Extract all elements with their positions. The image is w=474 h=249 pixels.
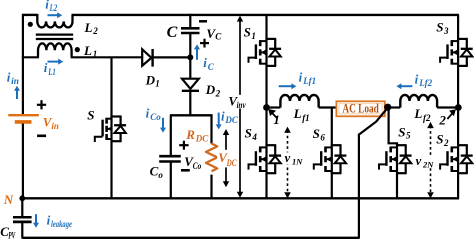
diode D2: [182, 79, 199, 91]
svg-text:v: v: [416, 154, 422, 168]
wire S3 source to node 2: [457, 66, 459, 108]
svg-text:in: in: [11, 76, 19, 86]
label iL2: [45, 0, 57, 13]
wire S drain: [110, 57, 112, 117]
label L2: [84, 20, 99, 36]
wire ground return bottom: [22, 237, 359, 239]
svg-text:v: v: [285, 151, 291, 165]
svg-text:S: S: [398, 124, 405, 139]
label Vinv: [228, 93, 247, 110]
inductor Lf2: [400, 95, 437, 108]
svg-text:i: i: [47, 212, 51, 227]
label iL1: [44, 60, 56, 77]
svg-text:S: S: [245, 126, 252, 141]
wire S2 drain: [457, 108, 459, 146]
svg-text:f2: f2: [423, 113, 431, 123]
inductor L1 winding (coupled): [38, 43, 72, 57]
label + (Co): [179, 141, 188, 150]
svg-text:C: C: [208, 62, 215, 72]
svg-text:2: 2: [215, 89, 221, 99]
voltage arrow VDC: [223, 129, 229, 187]
svg-text:DC: DC: [226, 158, 238, 168]
svg-text:6: 6: [320, 132, 325, 142]
svg-text:1: 1: [251, 31, 256, 41]
wire S1 source to node 1: [265, 66, 267, 108]
svg-text:Lf1: Lf1: [302, 76, 316, 86]
label AC Load: [342, 102, 379, 116]
label VC: [206, 26, 222, 42]
wire D2 to DC loop: [189, 91, 191, 117]
wire C bottom to node A: [189, 33, 191, 57]
transistor S (mosfet): [95, 117, 126, 142]
wire AC load to Lf2: [388, 106, 401, 108]
wire left vertical (battery + to coupled inductor): [22, 14, 24, 115]
current arrow ileakage: [33, 214, 39, 228]
label CPV: [0, 224, 16, 241]
svg-text:AC Load: AC Load: [342, 102, 379, 116]
wire L1 left stub: [22, 56, 39, 58]
svg-text:L: L: [413, 106, 422, 121]
load AC Load box: [336, 101, 384, 116]
voltage arrow Vinv: [237, 16, 243, 198]
current arrow iL2: [48, 12, 63, 18]
label v1N: [284, 151, 303, 166]
wire node A to D2: [189, 57, 191, 78]
wire S4 drain: [265, 108, 267, 146]
label Lf1: [293, 106, 310, 123]
voltage arrow v1N: [284, 127, 291, 199]
svg-text:i: i: [146, 106, 150, 121]
label S2: [436, 132, 449, 148]
transistor S2 (mosfet): [440, 145, 473, 173]
current arrow iL1: [48, 59, 64, 65]
label Co: [150, 164, 164, 181]
svg-text:in: in: [51, 121, 59, 131]
svg-text:i: i: [203, 55, 207, 70]
transistor S5 (mosfet): [379, 145, 412, 173]
wire Co branch upper: [170, 115, 172, 156]
label RDC: [185, 127, 209, 144]
wire node 1 to Lf1: [267, 106, 281, 108]
wire Co branch lower: [170, 162, 172, 200]
svg-text:leakage: leakage: [51, 219, 72, 229]
svg-text:Co: Co: [150, 112, 161, 122]
svg-text:D: D: [205, 82, 216, 97]
svg-text:i: i: [221, 109, 225, 124]
current arrow iin: [14, 86, 20, 99]
svg-text:S: S: [436, 132, 443, 147]
label S6: [313, 126, 326, 142]
node N junction dot: [19, 195, 25, 201]
svg-text:i: i: [45, 0, 49, 12]
node AC load right terminal dot: [384, 104, 391, 111]
svg-text:L1: L1: [47, 67, 55, 77]
svg-text:o: o: [158, 170, 163, 180]
svg-text:DC: DC: [195, 133, 209, 143]
wire S6 source to bottom rail: [331, 173, 333, 199]
wire Lf1 to AC load: [319, 106, 337, 108]
current arrow iDC: [216, 113, 222, 130]
wire S source to bottom rail: [110, 141, 112, 199]
inductor L1 polarity dot: [75, 47, 80, 52]
svg-text:4: 4: [251, 132, 257, 142]
svg-text:R: R: [185, 127, 195, 142]
label iC: [203, 55, 215, 72]
label node 2: [438, 109, 456, 127]
svg-text:L: L: [293, 106, 302, 121]
label C: [167, 24, 178, 41]
node 1 junction dot: [263, 104, 270, 111]
current arrow iC: [194, 44, 200, 59]
label − (Co): [181, 169, 190, 172]
svg-text:f1: f1: [302, 113, 310, 123]
svg-text:S: S: [436, 19, 443, 34]
svg-text:S: S: [87, 108, 94, 123]
wire DC loop top: [170, 114, 213, 116]
wire neutral riser: [358, 134, 360, 239]
svg-text:1N: 1N: [292, 156, 303, 166]
label ileakage: [47, 212, 72, 229]
svg-text:S: S: [313, 126, 320, 141]
wire RDC branch upper: [210, 115, 212, 143]
svg-text:5: 5: [406, 131, 411, 141]
svg-text:i: i: [415, 72, 419, 87]
inductor Lf1: [280, 95, 318, 108]
svg-text:C: C: [167, 24, 178, 41]
wire S3 drain from rail: [457, 15, 459, 39]
svg-text:L: L: [83, 43, 92, 58]
wire node N to CPV: [21, 199, 23, 217]
transistor S4 (mosfet): [249, 145, 282, 173]
coupled inductor core: [36, 35, 73, 39]
wire Lf2 to node 2: [437, 106, 458, 108]
diode D1: [142, 49, 152, 67]
svg-text:inv: inv: [237, 100, 247, 110]
svg-text:2: 2: [92, 26, 98, 36]
inductor L2 polarity dot: [28, 22, 33, 27]
label L1: [83, 43, 97, 59]
svg-text:N: N: [3, 192, 14, 207]
battery Vin plate -: [15, 120, 32, 124]
label iLf1: [299, 70, 317, 87]
current arrow iLf2: [396, 83, 412, 89]
svg-text:1: 1: [155, 79, 160, 89]
capacitor C: [181, 28, 200, 33]
svg-text:S: S: [244, 25, 251, 40]
label iin: [7, 70, 19, 87]
label D1: [145, 72, 160, 88]
battery Vin plate +: [8, 114, 39, 116]
svg-text:DC: DC: [224, 115, 238, 125]
label iDC: [221, 109, 239, 126]
current arrow iCo: [160, 118, 166, 133]
voltage arrow v2N: [427, 122, 434, 198]
label S: [87, 108, 94, 123]
svg-text:i: i: [44, 60, 48, 75]
wire top rail left segment: [24, 14, 37, 16]
wire neutral diagonal to AC load: [359, 108, 388, 135]
label iCo: [146, 106, 162, 123]
label S1: [244, 25, 256, 41]
wire S5 drain with jog: [389, 108, 397, 146]
label − (battery): [37, 135, 46, 138]
svg-text:C: C: [150, 164, 159, 179]
capacitor Co: [159, 156, 181, 161]
wire RDC branch lower: [210, 175, 212, 199]
label S4: [245, 126, 258, 142]
svg-text:i: i: [299, 70, 303, 85]
label node 1: [268, 109, 280, 127]
transistor S1 (mosfet): [249, 39, 282, 66]
label Vin: [43, 115, 59, 132]
svg-text:2: 2: [443, 138, 449, 148]
label + (battery): [37, 100, 46, 109]
wire S1 drain from rail: [265, 15, 267, 39]
svg-text:D: D: [145, 72, 156, 87]
label VCo: [184, 154, 201, 171]
inductor L2 winding (coupled): [37, 14, 72, 28]
wire CPV to ground return: [21, 222, 23, 239]
label + (C): [200, 39, 209, 48]
node A junction dot: [187, 54, 193, 60]
label iLf2: [415, 72, 433, 89]
label D2: [205, 82, 221, 98]
label S5: [398, 124, 411, 140]
capacitor CPV: [13, 217, 32, 222]
wire S2 source to bottom rail: [457, 173, 459, 199]
node 2 junction dot: [455, 104, 462, 111]
svg-text:3: 3: [443, 26, 449, 36]
transistor S3 (mosfet): [440, 39, 473, 66]
wire S4 source to bottom rail: [265, 173, 267, 199]
label v2N: [415, 154, 434, 169]
svg-text:L2: L2: [49, 3, 58, 13]
label Lf2: [413, 106, 431, 123]
svg-text:PV: PV: [8, 231, 15, 241]
transistor S6 (mosfet): [314, 145, 347, 173]
wire top rail right segment: [72, 14, 459, 16]
svg-text:Co: Co: [193, 161, 202, 171]
svg-text:Lf2: Lf2: [418, 78, 432, 88]
wire L1 to D1: [71, 56, 143, 58]
wire S6 drain: [331, 108, 333, 146]
wire C top: [189, 14, 191, 28]
svg-text:C: C: [215, 32, 222, 42]
svg-text:2N: 2N: [422, 159, 434, 169]
resistor RDC: [206, 144, 217, 172]
label VDC: [217, 150, 237, 168]
label N: [3, 192, 14, 207]
current arrow iLf1: [279, 83, 297, 89]
svg-text:i: i: [7, 70, 11, 85]
wire battery - to node N: [22, 124, 24, 199]
label S3: [436, 19, 449, 35]
svg-text:2: 2: [438, 112, 446, 127]
label − (C): [199, 20, 207, 23]
wire D1 to node A: [153, 56, 191, 58]
wire bottom rail: [22, 197, 459, 199]
svg-text:L: L: [84, 20, 93, 35]
wire S5 source to bottom rail: [396, 173, 398, 199]
